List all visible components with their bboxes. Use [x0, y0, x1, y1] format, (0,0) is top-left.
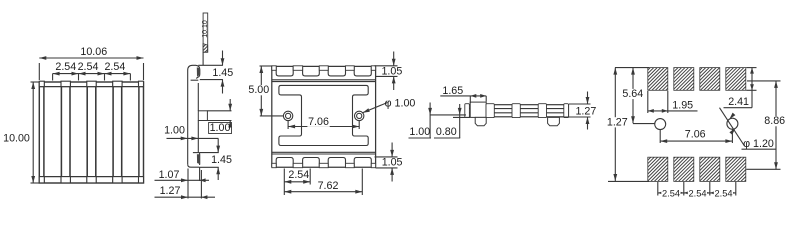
- svg-text:7.06: 7.06: [685, 129, 706, 141]
- svg-text:7.62: 7.62: [318, 180, 339, 192]
- dimension 2.54 (view 3 bottom): [284, 169, 310, 196]
- dimension 1.07 (view 2 foot): [155, 167, 210, 198]
- svg-text:1.45: 1.45: [211, 154, 232, 166]
- svg-text:2.54: 2.54: [288, 169, 309, 181]
- view 1: right edge terminal: [139, 81, 144, 183]
- view 5: left hole: [655, 119, 666, 130]
- view 3: bottom edge terminal caps: [272, 163, 376, 167]
- view 4: left terminal foot: [475, 117, 486, 125]
- svg-text:1.65: 1.65: [442, 85, 463, 97]
- dimension 2.54 pitch (view 1, three segments): [53, 61, 131, 80]
- view 2: bottom foot with section hatch: [188, 153, 201, 168]
- svg-text:1.27: 1.27: [575, 105, 596, 117]
- dimension 8.86 (view 5 right): [746, 81, 786, 169]
- dimension 7.06 (view 3 hole spacing): [288, 116, 359, 129]
- svg-text:1.45: 1.45: [212, 67, 233, 79]
- svg-text:1.05: 1.05: [382, 157, 403, 169]
- dimension 1.27 (view 4 right): [560, 92, 596, 130]
- svg-text:1.07: 1.07: [159, 169, 180, 181]
- view 2: middle terminal stub: [198, 111, 207, 121]
- view 3: right pin hole: [355, 111, 364, 120]
- dimension 1.95 (view 5 pad width): [648, 91, 698, 113]
- dimension phi 1.20 (view 5 hole diameter): [720, 108, 777, 150]
- dimension 2.54 x3 (view 5 pad pitch): [658, 182, 736, 199]
- dimension 1.27 (view 5 left): [606, 68, 649, 182]
- view 1: terminal bar 1: [61, 81, 70, 183]
- dimension phi 1.00 (view 3 hole diameter leader): [363, 98, 416, 113]
- svg-text:2.54: 2.54: [662, 189, 680, 199]
- svg-text:φ 1.20: φ 1.20: [743, 138, 774, 150]
- dimension 10.06 (view 1 top width): [39, 46, 143, 80]
- view 5: right hole: [727, 118, 738, 129]
- svg-text:1.27: 1.27: [607, 116, 628, 128]
- dimension 1.05 (view 3 bottom right): [375, 143, 403, 182]
- view 4: horizontal body strip: [466, 105, 569, 117]
- dimension 1.27 (view 2 overall foot): [155, 185, 216, 199]
- svg-text:1.00: 1.00: [164, 124, 185, 136]
- svg-text:1.27: 1.27: [160, 185, 181, 197]
- view 4: collar 2: [486, 104, 494, 118]
- svg-text:8.86: 8.86: [764, 115, 785, 127]
- view 3: top edge terminal caps: [272, 66, 376, 71]
- dimension 1.45 (view 2 bottom): [199, 138, 232, 180]
- svg-text:5.00: 5.00: [248, 84, 269, 96]
- dimension 10.00 (view 1 left height): [3, 82, 39, 183]
- svg-text:2.54: 2.54: [55, 61, 76, 73]
- svg-text:7.06: 7.06: [308, 116, 329, 128]
- svg-text:2.54: 2.54: [688, 189, 706, 199]
- dimension 1.00 boxed (view 2 middle stub): [207, 99, 232, 134]
- view 4: left terminal block: [470, 102, 486, 117]
- svg-text:2.41: 2.41: [728, 96, 749, 108]
- view 4: collar 3: [512, 104, 520, 118]
- dimension 1.45 (view 2 top): [198, 51, 233, 94]
- view 1: front view body outline: [39, 82, 143, 183]
- view 1: terminal bar 2: [87, 81, 96, 183]
- svg-text:2.54: 2.54: [78, 61, 99, 73]
- dimension 7.06 (view 5 hole spacing): [660, 129, 732, 144]
- view 3: bottom edge pin slots (bowls): [276, 158, 371, 167]
- view 4: right terminal foot: [548, 117, 560, 125]
- svg-text:5.64: 5.64: [622, 88, 643, 100]
- svg-text:10.06: 10.06: [80, 46, 107, 58]
- dimension 1.00 (view 2 body width): [164, 124, 218, 140]
- dimension 5.00 (view 3 left): [248, 66, 284, 116]
- view 4: left end collar: [465, 104, 470, 118]
- dimension 1.65 (view 4 left block): [440, 85, 486, 103]
- svg-text:1.95: 1.95: [672, 100, 693, 112]
- svg-text:10.00: 10.00: [3, 133, 30, 145]
- view 3: I-shaped winding slot: [279, 85, 368, 145]
- view 3: top flange lines: [272, 80, 376, 82]
- view 2: top terminal pin with section hatch: [202, 13, 209, 65]
- dimension 0.80 (view 4 wire height): [434, 104, 470, 138]
- view 3: body outline: [272, 66, 376, 167]
- dimension 2.41 (view 5 pad height): [724, 68, 757, 108]
- dimension 7.62 (view 3 bottom): [284, 169, 362, 196]
- svg-text:1.05: 1.05: [381, 65, 402, 77]
- view 5: bottom solder pads (hatched): [648, 157, 746, 181]
- svg-text:2.54: 2.54: [104, 61, 125, 73]
- view 1: terminal bar 3: [113, 81, 122, 183]
- svg-text:10.10: 10.10: [202, 20, 209, 38]
- svg-text:1.00: 1.00: [409, 126, 430, 138]
- dimension 5.64 (view 5): [622, 68, 655, 124]
- dimension 1.00 (view 4 left height): [409, 103, 467, 139]
- svg-text:φ 1.00: φ 1.00: [385, 98, 416, 110]
- view 3: bottom flange lines: [272, 152, 376, 154]
- svg-text:0.80: 0.80: [436, 126, 457, 138]
- svg-text:1.00: 1.00: [210, 122, 231, 134]
- svg-text:2.54: 2.54: [714, 189, 732, 199]
- view 1: left edge terminal: [39, 81, 44, 183]
- view 2: body profile with top hook: [188, 65, 200, 164]
- view 3: top edge pin slots (bowls): [276, 67, 371, 76]
- view 4: collar 4: [538, 104, 546, 118]
- dimension 1.05 (view 3 top right): [375, 52, 403, 91]
- view 3: left pin hole: [283, 111, 292, 120]
- view 5: top solder pads (hatched): [648, 68, 746, 91]
- view 4: right end collar: [564, 104, 569, 118]
